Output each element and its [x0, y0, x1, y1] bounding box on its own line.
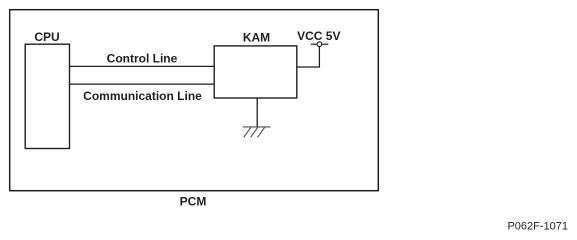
wire VCC supply (KAM right pin up to terminal) — [297, 46, 320, 67]
ground (chassis) symbol — [243, 127, 271, 137]
wire Control Line (CPU to KAM) — [70, 65, 215, 67]
VCC terminal circle — [317, 42, 322, 47]
PCM block outline — [10, 10, 379, 191]
wire KAM ground lead — [256, 98, 258, 127]
svg-text:P062F-1071: P062F-1071 — [507, 220, 568, 232]
KAM block — [214, 46, 297, 98]
svg-text:KAM: KAM — [243, 31, 270, 45]
svg-text:Communication Line: Communication Line — [83, 89, 202, 103]
wire Communication Line (CPU to KAM) — [70, 83, 215, 85]
CPU block — [25, 44, 69, 148]
svg-text:CPU: CPU — [34, 30, 59, 44]
VCC terminal right tick — [322, 43, 328, 45]
svg-text:VCC 5V: VCC 5V — [297, 29, 340, 43]
svg-text:PCM: PCM — [180, 194, 207, 208]
svg-text:Control Line: Control Line — [107, 52, 178, 66]
VCC terminal left tick — [311, 43, 317, 45]
